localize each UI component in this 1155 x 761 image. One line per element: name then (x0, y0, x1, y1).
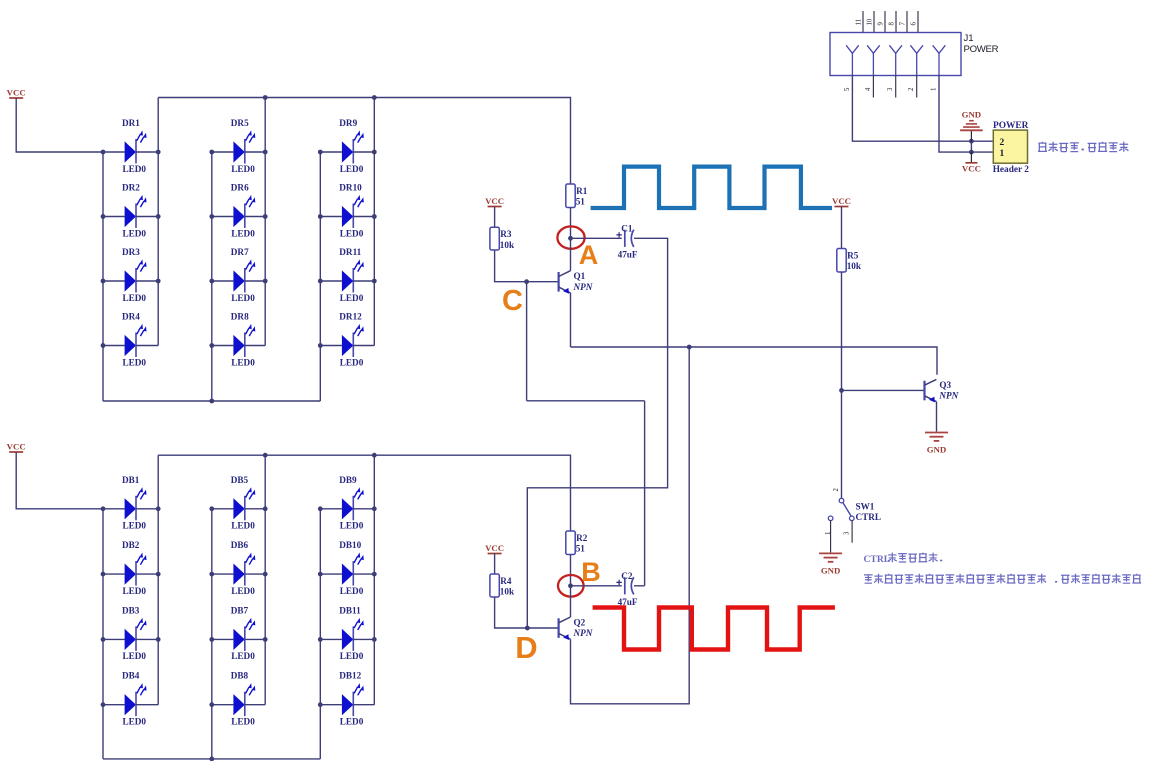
junction (372, 453, 377, 458)
svg-text:VCC: VCC (485, 543, 504, 553)
svg-text:B: B (581, 557, 601, 587)
junction (209, 150, 214, 155)
junction (Q1 base / cross-coupling) (524, 279, 529, 284)
junction (209, 702, 214, 707)
svg-text:DR11: DR11 (339, 247, 361, 257)
svg-text:47uF: 47uF (618, 250, 638, 260)
svg-text:10: 10 (867, 18, 874, 25)
svg-text:9: 9 (878, 22, 885, 26)
wire VCC stem to DR1 anode rail (16, 98, 103, 152)
svg-text:Q2: Q2 (574, 617, 586, 627)
svg-text:LED0: LED0 (123, 586, 147, 596)
svg-text:10k: 10k (500, 240, 515, 250)
junction (101, 343, 106, 348)
junction (263, 95, 268, 100)
wire top bus (LED cathodes to R2) (158, 455, 570, 531)
junction (263, 506, 268, 511)
annotation: power plug note (Chinese) (1038, 142, 1129, 152)
junction (318, 214, 323, 219)
junction (263, 214, 268, 219)
svg-text:C2: C2 (621, 571, 633, 581)
LED DR9 (320, 118, 374, 174)
svg-text:A: A (579, 240, 599, 270)
switch SW1 (828, 498, 881, 522)
wire Q3 emitter to GND (936, 402, 938, 432)
wire VCC to R5 (841, 207, 843, 249)
svg-text:LED0: LED0 (231, 357, 255, 367)
LED DB3 (103, 605, 158, 661)
svg-text:POWER: POWER (964, 44, 999, 55)
svg-text:CTRL: CTRL (864, 554, 891, 565)
connector J1 POWER (11-pin header) (830, 33, 961, 76)
wire J1 pin1 to power box pin1 (939, 75, 993, 152)
svg-text:DB4: DB4 (122, 671, 140, 681)
power symbol VCC (R5) (832, 196, 851, 207)
LED DB7 (212, 605, 265, 661)
ground symbol (SW1) (819, 553, 842, 575)
svg-text:8: 8 (889, 22, 896, 26)
svg-text:10k: 10k (847, 261, 862, 271)
J1 contact symbol pin 3 (889, 45, 902, 53)
red circle marker node B (558, 575, 584, 597)
svg-text:POWER: POWER (993, 121, 1029, 131)
svg-text:GND: GND (821, 565, 841, 575)
svg-text:LED0: LED0 (231, 717, 255, 727)
svg-text:DR9: DR9 (339, 118, 357, 128)
svg-text:LED0: LED0 (123, 164, 147, 174)
svg-text:LED0: LED0 (231, 228, 255, 238)
junction (209, 637, 214, 642)
LED DR8 (212, 312, 265, 368)
wire VCC to R4 (494, 554, 496, 575)
junction (318, 572, 323, 577)
junction (101, 702, 106, 707)
svg-text:DB2: DB2 (122, 540, 140, 550)
svg-text:LED0: LED0 (231, 164, 255, 174)
LED DB12 (320, 671, 374, 727)
wire R1 to node A (570, 208, 572, 239)
junction (209, 506, 214, 511)
svg-text:R2: R2 (576, 533, 588, 543)
annotation: CTRL note line 1 (Chinese) (864, 553, 943, 565)
junction (372, 572, 377, 577)
junction (156, 572, 161, 577)
J1 top pin 11 (862, 11, 864, 33)
LED DR2 (103, 183, 158, 239)
connector POWER (Header 2) (993, 130, 1027, 163)
svg-text:DB1: DB1 (122, 475, 140, 485)
LED DR3 (103, 247, 158, 303)
svg-text:LED0: LED0 (340, 228, 364, 238)
junction (318, 150, 323, 155)
svg-text:CTRL: CTRL (856, 512, 882, 522)
svg-text:VCC: VCC (485, 196, 504, 206)
LED DR5 (212, 118, 265, 174)
junction (318, 637, 323, 642)
wire anode rail column 1 (top array) (102, 152, 104, 401)
transistor Q2 (NPN) (559, 617, 593, 640)
annotation: CTRL note line 2 (Chinese) (864, 574, 1141, 584)
wire emitters bus to Q3 collector (571, 347, 938, 375)
svg-text:2: 2 (908, 87, 915, 91)
resistor R1 (566, 184, 588, 208)
junction (101, 214, 106, 219)
junction (318, 702, 323, 707)
wire anode rail column 1 (bottom array) (102, 509, 104, 759)
wire cathode rail column 1 (top array) (157, 98, 159, 346)
LED DR10 (320, 183, 374, 239)
wire top bus (LED cathodes to R1) (158, 98, 570, 185)
svg-text:VCC: VCC (832, 196, 851, 206)
junction (101, 572, 106, 577)
wire Q1 emitter down (570, 293, 572, 347)
wire vcc stem (970, 152, 972, 163)
J1 contact symbol pin 2 (910, 45, 923, 53)
wire node B to C2 (571, 585, 622, 587)
svg-text:GND: GND (927, 445, 947, 455)
svg-text:SW1: SW1 (856, 502, 875, 512)
wire anode rail column 3 (bottom array) (319, 509, 321, 759)
J1 bottom pin stub (895, 75, 897, 97)
capacitor C1 (616, 224, 637, 260)
wire R2 to node B (570, 555, 572, 586)
junction (156, 279, 161, 284)
svg-text:NPN: NPN (938, 391, 958, 401)
svg-text:NPN: NPN (573, 628, 593, 638)
wire SW1 pin3 stub (851, 521, 853, 543)
LED DB1 (103, 475, 158, 531)
wire C1 right plate to Q2 base (cross coupling) (527, 238, 667, 628)
svg-text:LED0: LED0 (340, 293, 364, 303)
svg-text:3: 3 (887, 87, 894, 91)
junction (372, 637, 377, 642)
junction (101, 150, 106, 155)
wire cathode rail column 1 (bottom array) (157, 455, 159, 705)
power symbol VCC (R4) (485, 543, 504, 554)
junction (156, 637, 161, 642)
J1 top pin 7 (906, 11, 908, 33)
svg-text:DB5: DB5 (231, 475, 249, 485)
wire C2 right plate to Q1 base (cross coupling) (527, 282, 645, 586)
wire R3 to Q1 base (495, 250, 559, 282)
svg-text:DB9: DB9 (339, 475, 357, 485)
svg-text:R5: R5 (847, 250, 859, 260)
svg-text:DR12: DR12 (339, 312, 362, 322)
power symbol VCC (top LED array) (7, 87, 26, 98)
LED DB8 (212, 671, 265, 727)
junction (263, 150, 268, 155)
wire node A to C1 (571, 237, 622, 239)
wire anode rail column 2 (bottom array) (211, 509, 213, 759)
wire SW1 pin1 to GND (830, 521, 832, 553)
junction (372, 150, 377, 155)
svg-text:DB7: DB7 (231, 605, 249, 615)
svg-text:VCC: VCC (7, 441, 26, 451)
svg-text:LED0: LED0 (123, 717, 147, 727)
junction (101, 506, 106, 511)
svg-text:1: 1 (931, 88, 938, 91)
svg-text:R4: R4 (500, 576, 512, 586)
svg-text:LED0: LED0 (340, 357, 364, 367)
svg-text:LED0: LED0 (123, 293, 147, 303)
wire Q2 emitter return loop (571, 347, 690, 704)
resistor R5 (837, 249, 862, 273)
J1 contact symbol pin 4 (867, 45, 880, 53)
LED DR12 (320, 312, 374, 368)
resistor R3 (490, 227, 515, 250)
junction (372, 95, 377, 100)
junction (156, 150, 161, 155)
LED DR6 (212, 183, 265, 239)
svg-text:3: 3 (844, 531, 851, 535)
svg-text:LED0: LED0 (340, 717, 364, 727)
svg-text:LED0: LED0 (123, 521, 147, 531)
svg-text:DR7: DR7 (231, 247, 249, 257)
wire gnd stem (970, 130, 972, 141)
svg-text:DR8: DR8 (231, 312, 249, 322)
J1 top pin 9 (884, 11, 886, 33)
svg-text:Q3: Q3 (939, 380, 951, 390)
svg-text:DB6: DB6 (231, 540, 249, 550)
J1 bottom pin stub (872, 75, 874, 97)
svg-text:7: 7 (900, 22, 907, 26)
junction (101, 279, 106, 284)
svg-text:51: 51 (576, 544, 586, 554)
svg-text:1: 1 (1000, 149, 1005, 159)
wire cathode rail column 2 (top array) (264, 98, 266, 346)
junction (209, 572, 214, 577)
LED DR7 (212, 247, 265, 303)
svg-text:DB8: DB8 (231, 671, 249, 681)
svg-text:NPN: NPN (573, 282, 593, 292)
J1 top pin 10 (873, 11, 875, 33)
svg-text:DR3: DR3 (122, 247, 140, 257)
junction (263, 637, 268, 642)
wire R5 to SW1 (841, 272, 843, 498)
svg-text:DR6: DR6 (231, 183, 249, 193)
svg-text:4: 4 (865, 87, 872, 91)
J1 contact symbol pin 5 (846, 45, 859, 53)
svg-text:R3: R3 (500, 229, 512, 239)
junction (156, 506, 161, 511)
LED DB5 (212, 475, 265, 531)
wire J1 pin5 to power box pin2 (852, 75, 993, 141)
wire cathode rail column 2 (bottom array) (264, 455, 266, 705)
junction (101, 637, 106, 642)
svg-text:C1: C1 (621, 224, 633, 234)
svg-text:LED0: LED0 (123, 228, 147, 238)
svg-text:LED0: LED0 (340, 651, 364, 661)
svg-text:DR2: DR2 (122, 183, 140, 193)
wire R4 to Q2 base (495, 597, 559, 628)
junction (969, 150, 974, 155)
capacitor C2 (616, 571, 637, 607)
svg-text:VCC: VCC (962, 163, 981, 173)
svg-text:VCC: VCC (7, 87, 26, 97)
svg-text:GND: GND (962, 110, 982, 120)
svg-text:D: D (515, 630, 537, 665)
red square wave (node B waveform) (593, 608, 835, 650)
svg-text:LED0: LED0 (340, 164, 364, 174)
LED DB2 (103, 540, 158, 596)
junction (209, 343, 214, 348)
svg-text:Header 2: Header 2 (993, 165, 1030, 175)
transistor Q1 (NPN) (559, 271, 593, 294)
svg-text:LED0: LED0 (123, 651, 147, 661)
junction (209, 214, 214, 219)
svg-text:51: 51 (576, 197, 586, 207)
svg-text:LED0: LED0 (123, 357, 147, 367)
wire bottom rail (bottom array) (103, 758, 320, 760)
wire anode rail column 3 (top array) (319, 152, 321, 401)
junction (263, 572, 268, 577)
wire VCC to R3 (494, 207, 496, 228)
LED DB6 (212, 540, 265, 596)
svg-text:DB11: DB11 (339, 605, 361, 615)
svg-text:LED0: LED0 (231, 521, 255, 531)
junction emitter bus (687, 345, 692, 350)
J1 bottom pin stub (916, 75, 918, 97)
svg-text:DB10: DB10 (339, 540, 361, 550)
LED DR4 (103, 312, 158, 368)
svg-text:J1: J1 (964, 33, 974, 44)
wire junction link (970, 141, 972, 152)
LED DB4 (103, 671, 158, 727)
svg-text:6: 6 (911, 22, 918, 26)
svg-text:C: C (502, 285, 523, 317)
power symbol VCC (bottom LED array) (7, 441, 26, 452)
J1 top pin 8 (895, 11, 897, 33)
svg-text:LED0: LED0 (231, 293, 255, 303)
wire cathode rail column 3 (top array) (373, 98, 375, 346)
svg-text:LED0: LED0 (231, 651, 255, 661)
LED DR1 (103, 118, 158, 174)
junction (209, 757, 214, 761)
svg-text:R1: R1 (576, 186, 588, 196)
power symbol VCC (R3) (485, 196, 504, 207)
node B junction (568, 583, 573, 588)
svg-text:LED0: LED0 (340, 586, 364, 596)
svg-text:10k: 10k (500, 587, 515, 597)
wire anode rail column 2 (top array) (211, 152, 213, 401)
junction (Q2 base / cross-coupling) (525, 626, 530, 631)
blue square wave (node A waveform) (591, 167, 832, 208)
transistor Q3 (NPN) (925, 379, 959, 402)
J1 contact symbol pin 1 (933, 45, 946, 53)
svg-text:DR4: DR4 (122, 312, 140, 322)
svg-text:11: 11 (856, 19, 863, 26)
J1 top pin 6 (917, 11, 919, 33)
LED DB10 (320, 540, 374, 596)
svg-text:DR10: DR10 (339, 183, 362, 193)
svg-text:5: 5 (844, 87, 851, 91)
junction (209, 399, 214, 404)
junction (156, 214, 161, 219)
junction (Q3 base tap) (839, 388, 844, 393)
red circle marker node A (557, 226, 584, 248)
wire bottom rail (top array) (103, 400, 320, 402)
svg-text:DB12: DB12 (339, 671, 361, 681)
svg-text:DB3: DB3 (122, 605, 140, 615)
junction (318, 506, 323, 511)
resistor R2 (566, 531, 588, 555)
svg-text:2: 2 (1000, 138, 1005, 148)
svg-text:LED0: LED0 (340, 521, 364, 531)
svg-text:DR1: DR1 (122, 118, 140, 128)
junction (318, 343, 323, 348)
junction (263, 279, 268, 284)
node A junction (568, 236, 573, 241)
svg-text:DR5: DR5 (231, 118, 249, 128)
wire Q2 collector to node B (570, 586, 572, 617)
junction (318, 279, 323, 284)
LED DB11 (320, 605, 374, 661)
junction (372, 279, 377, 284)
wire base tap to Q3 (842, 389, 925, 391)
LED DB9 (320, 475, 374, 531)
wire Q1 collector to node A (570, 238, 572, 270)
junction (209, 279, 214, 284)
junction (372, 214, 377, 219)
resistor R4 (490, 574, 515, 597)
junction (372, 506, 377, 511)
ground symbol (Q3 emitter) (925, 433, 948, 455)
junction (263, 453, 268, 458)
svg-text:Q1: Q1 (574, 271, 586, 281)
svg-text:LED0: LED0 (231, 586, 255, 596)
junction (969, 139, 974, 144)
svg-text:2: 2 (833, 488, 840, 492)
wire cathode rail column 3 (bottom array) (373, 455, 375, 705)
LED DR11 (320, 247, 374, 303)
wire VCC stem to DB1 anode rail (16, 452, 103, 509)
